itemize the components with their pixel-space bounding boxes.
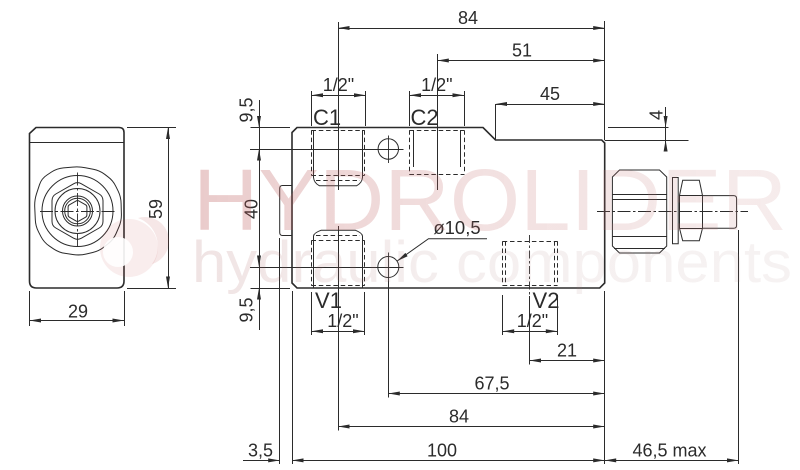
dim half C2	[410, 75, 465, 126]
svg-text:9,5: 9,5	[237, 97, 257, 122]
knob crosshair	[40, 173, 116, 250]
label 9,5 bottom	[237, 297, 257, 322]
left view block outline	[30, 128, 125, 289]
svg-text:46,5 max: 46,5 max	[632, 440, 706, 460]
watermark HYDROLIDER	[193, 152, 787, 249]
svg-text:1/2": 1/2"	[517, 311, 548, 331]
left view top step line	[30, 142, 125, 144]
lock nut	[680, 180, 703, 240]
C2 thread dashed	[410, 130, 465, 174]
valve hex nut	[612, 170, 666, 253]
C1 thread dashed	[312, 130, 365, 175]
dim 4	[605, 107, 689, 152]
V1 bore	[314, 230, 363, 288]
dim 29	[30, 291, 125, 326]
upper mounting hole	[378, 136, 398, 164]
svg-text:59: 59	[146, 199, 166, 219]
V1 thread dashed	[312, 240, 365, 285]
dim half V2	[503, 295, 558, 335]
V2 dashed rect	[503, 241, 558, 285]
knob hex face	[52, 183, 103, 240]
knob body circle	[42, 176, 113, 247]
svg-text:84: 84	[449, 407, 469, 427]
left boss	[280, 186, 292, 236]
right edge ext line top	[604, 21, 606, 140]
V2 label	[533, 288, 560, 313]
svg-text:100: 100	[427, 440, 457, 460]
left ext lines	[251, 128, 291, 289]
svg-text:1/2": 1/2"	[323, 75, 354, 95]
svg-text:4: 4	[647, 110, 667, 120]
C2 centerline ext	[437, 54, 439, 190]
V1 label	[315, 288, 342, 313]
adjusting stem	[703, 196, 737, 229]
ext line x605 bottom	[604, 291, 606, 464]
chain dim line	[257, 100, 261, 330]
dim 21	[530, 341, 605, 363]
dim 3,5	[243, 440, 280, 462]
dim 51	[437, 41, 604, 63]
dim 84 top	[338, 8, 605, 30]
knob outer polygon	[35, 167, 122, 255]
svg-text:1/2": 1/2"	[327, 311, 358, 331]
svg-text:1/2": 1/2"	[421, 75, 452, 95]
dim half V1	[312, 292, 365, 335]
watermark hydraulic components	[192, 230, 792, 295]
svg-text:C1: C1	[313, 105, 341, 130]
socket ring outer	[63, 196, 93, 226]
C2 label	[410, 105, 438, 130]
C2 bore	[414, 130, 461, 167]
ext line x292	[292, 291, 294, 464]
C1 label	[313, 105, 341, 130]
svg-text:84: 84	[458, 8, 478, 28]
ext line x738 stem	[738, 230, 740, 464]
label 9,5 top	[237, 97, 257, 122]
cartridge centerline	[597, 211, 748, 213]
main block outline	[292, 128, 605, 289]
socket ring inner	[65, 198, 91, 224]
V2 centerline ext	[529, 235, 531, 365]
svg-text:3,5: 3,5	[248, 440, 273, 460]
lower mounting hole	[378, 253, 399, 282]
washer ring	[673, 178, 679, 244]
knob inner circle	[55, 189, 100, 234]
label 40	[242, 199, 262, 219]
svg-text:9,5: 9,5	[237, 297, 257, 322]
svg-text:29: 29	[68, 302, 88, 322]
svg-text:21: 21	[557, 341, 577, 361]
C1 bore	[314, 130, 363, 186]
hole diameter leader	[397, 217, 487, 261]
svg-text:45: 45	[540, 84, 560, 104]
svg-text:hydraulic components: hydraulic components	[192, 230, 792, 295]
dim 45	[496, 84, 605, 140]
watermark logo	[100, 217, 169, 277]
dim 59	[127, 128, 176, 289]
ext line x280	[279, 238, 281, 464]
dim 100	[292, 440, 605, 462]
dim half C1	[312, 75, 366, 126]
C1 centerline ext	[338, 22, 340, 190]
dim 46,5 max	[605, 440, 739, 462]
svg-text:51: 51	[512, 41, 532, 61]
upper holes centerline	[250, 149, 404, 151]
hex socket	[68, 201, 87, 222]
lower holes centerline	[250, 267, 404, 269]
svg-text:C2: C2	[410, 105, 438, 130]
dim 67,5	[388, 281, 604, 398]
svg-text:67,5: 67,5	[474, 374, 509, 394]
dim 84 bottom	[338, 407, 605, 429]
V1 centerline ext	[338, 226, 340, 431]
